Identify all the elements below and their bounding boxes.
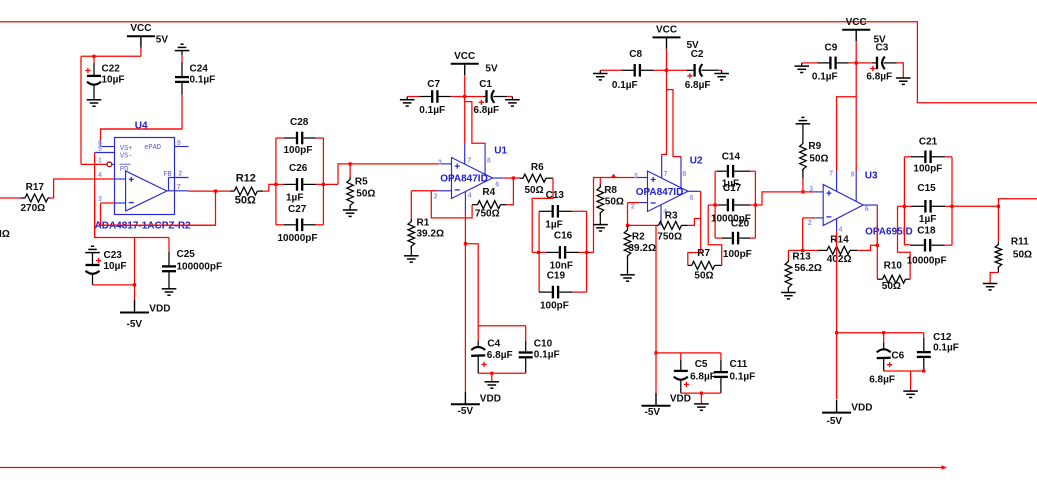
capacitor C7 0.1uF	[407, 96, 419, 98]
svg-text:50Ω: 50Ω	[356, 189, 375, 200]
svg-text:0.1µF: 0.1µF	[730, 371, 756, 382]
node block1 left-C26	[274, 183, 277, 186]
svg-text:6.8µF: 6.8µF	[866, 72, 892, 83]
svg-text:0.1µF: 0.1µF	[190, 75, 216, 86]
resistor R5 50ohm to gnd	[349, 164, 351, 177]
wire VCC stem U3	[855, 41, 857, 63]
svg-text:7: 7	[664, 171, 668, 178]
resistor R1 39.2ohm to gnd	[410, 191, 412, 219]
wire VDD row U4	[94, 237, 169, 239]
ground C6/C12 block	[903, 390, 918, 392]
svg-text:C13: C13	[546, 190, 565, 201]
ground R8	[593, 224, 608, 226]
wire R4 to output	[507, 178, 514, 205]
capacitor C18 10000pF	[924, 239, 926, 252]
U2 pin 3 +in lead	[638, 177, 648, 179]
U3 pin 4 lead	[836, 219, 838, 233]
capacitor C24 0.1uF	[181, 55, 183, 62]
capacitor C22 10uF	[93, 56, 95, 63]
svg-text:402Ω: 402Ω	[827, 254, 852, 265]
capacitor C17 10000pF	[708, 204, 717, 206]
U4 pin 8 VS+	[101, 146, 115, 148]
U3 pin 2 -in lead	[816, 217, 823, 219]
svg-text:5V: 5V	[156, 35, 169, 46]
svg-text:39.2Ω: 39.2Ω	[629, 243, 656, 254]
wire block3 left vertical	[714, 171, 716, 238]
U1 pin 2 -in lead	[438, 190, 452, 192]
wire block4 left vertical	[904, 157, 910, 245]
wire R12 to cap block	[263, 184, 276, 191]
svg-text:R10: R10	[884, 260, 903, 271]
ground C24 (top)	[180, 43, 183, 45]
svg-text:7: 7	[467, 157, 471, 164]
wire VCC stem U1	[464, 75, 466, 96]
svg-text:50Ω: 50Ω	[525, 185, 544, 196]
wire U4 pin5 VS- rail down	[94, 153, 96, 238]
wire VCC top rail	[0, 22, 1037, 103]
svg-text:C8: C8	[629, 49, 642, 60]
wire U3 output down	[876, 205, 878, 279]
wire block2 inner-left vertical	[538, 211, 540, 292]
svg-text:U2: U2	[690, 156, 703, 167]
resistor R10 50ohm series	[883, 275, 906, 283]
wire U1 output node	[504, 177, 520, 179]
U1 pin 8 lead	[484, 145, 486, 175]
svg-text:50Ω: 50Ω	[235, 195, 256, 207]
wire R6 to block2 jog	[532, 178, 553, 252]
wire cap block1 left vertical	[275, 138, 277, 225]
U2 pin 2 -in lead	[640, 202, 648, 204]
svg-text:50Ω: 50Ω	[1013, 249, 1032, 260]
svg-text:C14: C14	[722, 151, 741, 162]
wire C5/C11 bottom rail	[681, 392, 721, 394]
svg-text:C28: C28	[290, 117, 309, 128]
node VCC junction U2	[665, 69, 668, 72]
U2 pin 8 lead	[680, 157, 682, 188]
node R5 junction	[349, 162, 352, 165]
resistor R13 56.2ohm to gnd	[788, 249, 802, 251]
node VCC junction U3	[855, 61, 858, 64]
svg-text:-5V: -5V	[827, 416, 843, 427]
wire U4 output to R12	[189, 190, 231, 192]
resistor R4 750ohm feedback	[478, 201, 501, 209]
svg-text:OPA695ID: OPA695ID	[865, 227, 913, 238]
wire VCC to U2 pin 7	[662, 70, 667, 154]
wire VCC branch to U3 pin 7	[837, 97, 857, 172]
power VDD -5V U1	[451, 403, 480, 405]
capacitor C14 1uF	[715, 170, 717, 172]
svg-text:VDD: VDD	[670, 393, 691, 404]
resistor R8 50ohm to gnd	[599, 178, 601, 185]
svg-text:9: 9	[177, 140, 181, 147]
node VCC-C22 junction	[92, 55, 95, 58]
svg-text:1µF: 1µF	[545, 220, 562, 231]
svg-text:8: 8	[487, 157, 491, 164]
resistor R3 750ohm feedback	[659, 221, 682, 229]
resistor R11 50ohm to gnd	[997, 206, 999, 242]
power VCC U4 stage	[127, 35, 155, 37]
svg-text:3: 3	[438, 159, 442, 166]
wire VCC to U1 pin 7	[464, 97, 466, 144]
capacitor C28 100pF	[276, 137, 284, 139]
U2 pin 6 output lead	[688, 190, 701, 192]
U1 pin 7 lead	[464, 143, 466, 164]
capacitor C2 6.8uF	[667, 69, 687, 71]
svg-text:C4: C4	[487, 338, 500, 349]
svg-text:-5V: -5V	[645, 407, 661, 418]
capacitor C13 1uF	[552, 205, 554, 218]
svg-text:R1: R1	[417, 218, 430, 229]
svg-text:50Ω: 50Ω	[809, 154, 828, 165]
U4 pin 4 +in	[115, 178, 126, 180]
ground R11	[983, 283, 998, 285]
wire C6/C12 bottom rail	[884, 370, 924, 372]
capacitor C25 100000pF	[168, 238, 170, 253]
U4 pin 2 FB	[169, 177, 189, 179]
svg-text:C5: C5	[695, 359, 708, 370]
svg-text:C10: C10	[534, 338, 553, 349]
svg-text:3: 3	[98, 196, 102, 203]
svg-text:750Ω: 750Ω	[475, 209, 500, 220]
capacitor C5 6.8uF	[674, 370, 688, 372]
resistor R17 270ohm input	[0, 197, 21, 199]
svg-text:U1: U1	[494, 145, 507, 156]
U4 pin 3 -in	[115, 202, 126, 204]
wire R14 to output	[857, 245, 877, 250]
node -in junction U3	[801, 249, 804, 252]
U2 pin 7 lead	[661, 154, 663, 178]
svg-text:7: 7	[829, 170, 833, 177]
wire output exit to right edge	[952, 205, 998, 207]
svg-text:100pF: 100pF	[723, 249, 752, 260]
resistor R14 402ohm feedback	[803, 249, 819, 251]
svg-text:C2: C2	[691, 49, 704, 60]
svg-text:3: 3	[809, 186, 813, 193]
U2 pin 4 lead	[660, 205, 662, 226]
svg-text:VCC: VCC	[130, 23, 151, 34]
wire C4/C10 bottom rail	[478, 372, 526, 374]
node C16 row junctions	[537, 251, 540, 254]
ground R9 (top)	[801, 116, 804, 118]
svg-text:FB: FB	[163, 171, 171, 179]
wire block2 inner-right vertical	[586, 211, 588, 292]
svg-text:C1: C1	[479, 79, 492, 90]
svg-text:10000pF: 10000pF	[278, 233, 318, 244]
svg-text:6: 6	[865, 206, 869, 213]
capacitor C26 1uF	[276, 183, 284, 185]
node R9 junction	[801, 190, 804, 193]
wire VCC stem to rail U4	[140, 48, 142, 57]
node VCC junction U1	[463, 95, 466, 98]
svg-text:C23: C23	[104, 250, 123, 261]
ground C4/C10 block	[485, 381, 500, 383]
svg-text:2: 2	[178, 171, 182, 178]
svg-text:750Ω: 750Ω	[657, 232, 682, 243]
svg-text:-5V: -5V	[127, 319, 143, 330]
capacitor C8 0.1uF	[600, 69, 621, 71]
capacitor C15 1uF	[898, 205, 912, 207]
ground C22	[87, 99, 102, 101]
svg-text:U3: U3	[865, 171, 878, 182]
svg-text:3: 3	[634, 173, 638, 180]
svg-text:C18: C18	[917, 225, 936, 236]
svg-text:C15: C15	[917, 183, 936, 194]
power VCC U3 stage	[842, 29, 870, 31]
wire VCC stem U2	[666, 49, 668, 71]
svg-text:C26: C26	[289, 163, 308, 174]
ground C23 (top)	[91, 245, 94, 247]
power VCC U1 stage	[451, 63, 479, 65]
node V- branch U3	[835, 331, 838, 334]
node R2 junction	[626, 224, 629, 227]
svg-text:C7: C7	[427, 79, 440, 90]
node output-R14 junction	[876, 244, 879, 247]
svg-text:R3: R3	[665, 211, 678, 222]
wire R10 to block4 left	[898, 206, 911, 279]
svg-text:R9: R9	[808, 141, 821, 152]
U1 pin 6 output lead	[493, 177, 504, 179]
wire block2 exit to U2 +in	[594, 178, 638, 253]
wire C24 to U4 pin 8 (VS+)	[181, 83, 183, 95]
svg-text:0.1µF: 0.1µF	[812, 72, 838, 83]
node block3 left-C17	[714, 203, 717, 206]
U4 pin 7 output	[167, 190, 189, 192]
wire block3 exit to U3 +in	[755, 192, 813, 205]
svg-text:4: 4	[839, 227, 843, 234]
wire branch to C6/C12 block	[837, 332, 924, 334]
svg-text:R2: R2	[632, 231, 645, 242]
svg-text:39.2Ω: 39.2Ω	[417, 229, 444, 240]
ground R2	[620, 274, 635, 276]
svg-text:R13: R13	[792, 251, 811, 262]
ground R13	[781, 292, 796, 294]
svg-text:C17: C17	[723, 183, 742, 194]
ground C5/C11 block	[694, 403, 709, 405]
wire R11 to ground	[990, 273, 998, 284]
wire U4 feedback (over label)	[100, 224, 215, 226]
svg-text:C16: C16	[554, 231, 573, 242]
op-amp U3 OPA695ID	[823, 185, 863, 226]
svg-text:ePAD: ePAD	[144, 144, 161, 152]
svg-text:7: 7	[177, 184, 181, 191]
wire branch to C4/C10 block	[465, 244, 525, 326]
svg-text:270Ω: 270Ω	[21, 203, 46, 214]
U3 pin 8 lead	[855, 171, 857, 202]
svg-text:4: 4	[468, 192, 472, 199]
svg-text:PD: PD	[120, 166, 128, 174]
U4 pin 1 PD with bubble	[107, 162, 112, 167]
wire U4 VS- rail (over label)	[94, 200, 96, 238]
svg-text:8: 8	[851, 171, 855, 178]
wire C23 to VDD rail	[93, 284, 135, 286]
ground C3 (right)	[896, 77, 911, 79]
svg-text:C25: C25	[177, 249, 196, 260]
resistor R12 50ohm	[234, 187, 257, 195]
U3 pin 6 output lead	[863, 204, 877, 206]
ground C25	[162, 288, 177, 290]
op-amp U2 OPA847ID	[648, 171, 689, 212]
node block3 right-C17	[754, 203, 757, 206]
svg-text:10µF: 10µF	[102, 75, 125, 86]
capacitor C11 0.1uF	[714, 371, 728, 373]
svg-text:VDD: VDD	[480, 393, 501, 404]
svg-text:1µF: 1µF	[286, 192, 303, 203]
wire VCC branch to U2 pin 8	[667, 90, 682, 157]
svg-text:0.1µF: 0.1µF	[419, 105, 445, 116]
wire branch to C5/C11 block	[656, 352, 721, 354]
svg-text:R8: R8	[604, 185, 617, 196]
svg-text:6: 6	[495, 182, 499, 189]
node C6 top junction	[882, 331, 885, 334]
svg-text:6.8µF: 6.8µF	[869, 375, 895, 386]
wire VCC branch to U1 pin 8	[465, 102, 485, 145]
wire U1 pin4 V- rail down	[464, 212, 466, 393]
svg-text:VDD: VDD	[149, 304, 170, 315]
ground R1	[404, 255, 419, 257]
ground C1 (right)	[505, 99, 520, 101]
op-amp U1 OPA847ID	[452, 158, 493, 199]
wire U1 -in to R1/R4	[411, 190, 437, 192]
wire R17 to U4 pin 4 (+in)	[50, 179, 115, 198]
svg-text:100000pF: 100000pF	[177, 262, 223, 273]
U1 pin 3 +in lead	[442, 163, 452, 165]
node U1 out junction	[512, 176, 515, 179]
ground C9 (left)	[794, 65, 809, 67]
capacitor C16 10nF	[532, 251, 546, 253]
svg-text:0.1µF: 0.1µF	[933, 342, 959, 353]
ground C7 (left)	[400, 99, 415, 101]
svg-text:R5: R5	[355, 176, 368, 187]
ground C2 (right)	[714, 73, 729, 75]
svg-text:-5V: -5V	[458, 406, 474, 417]
wire U2 pin4 V- rail down	[655, 225, 657, 394]
svg-text:10µF: 10µF	[104, 261, 127, 272]
svg-text:C21: C21	[919, 136, 938, 147]
resistor R2 39.2ohm to gnd	[624, 228, 631, 259]
svg-text:10000pF: 10000pF	[907, 255, 947, 266]
svg-text:R4: R4	[482, 187, 495, 198]
svg-text:VS-: VS-	[120, 152, 133, 160]
node R8 junction	[611, 174, 617, 178]
svg-text:C6: C6	[891, 351, 904, 362]
capacitor C3 6.8uF	[856, 62, 872, 64]
wire U3 output vertical (over label)	[876, 225, 878, 246]
wire -in row to R3	[628, 224, 657, 226]
svg-text:C9: C9	[825, 42, 838, 53]
node block4 left-C15	[903, 205, 906, 208]
wire block3 right vertical	[754, 171, 756, 238]
capacitor C27 10000pF	[276, 224, 284, 226]
capacitor C12 0.1uF	[917, 351, 931, 353]
svg-text:R7: R7	[697, 248, 710, 259]
svg-text:6.8µF: 6.8µF	[473, 105, 499, 116]
U3 pin 7 lead	[836, 172, 838, 192]
capacitor C10 0.1uF	[519, 351, 533, 353]
svg-text:C27: C27	[288, 204, 307, 215]
svg-text:4: 4	[98, 172, 102, 179]
ground C8 (left)	[593, 73, 608, 75]
capacitor C23 10uF	[86, 264, 100, 266]
svg-text:VCC: VCC	[454, 51, 475, 62]
capacitor C1 6.8uF	[465, 96, 484, 98]
svg-text:50Ω: 50Ω	[694, 271, 713, 282]
svg-text:6.8µF: 6.8µF	[690, 371, 716, 382]
svg-text:5V: 5V	[485, 64, 498, 75]
node R11 junction	[997, 205, 1000, 208]
svg-text:6: 6	[690, 195, 694, 202]
node V- branch U2	[654, 351, 657, 354]
svg-text:C19: C19	[547, 270, 566, 281]
svg-text:50Ω: 50Ω	[882, 281, 901, 292]
svg-text:2: 2	[434, 194, 438, 201]
U1 pin 4 lead	[464, 192, 466, 212]
svg-text:6.8µF: 6.8µF	[487, 350, 513, 361]
svg-text:0.1µF: 0.1µF	[612, 80, 638, 91]
svg-text:8: 8	[682, 171, 686, 178]
resistor R9 50ohm to gnd	[800, 141, 807, 172]
U3 pin 3 +in lead	[813, 191, 823, 193]
svg-text:VCC: VCC	[656, 24, 677, 35]
svg-text:OPA847ID: OPA847ID	[636, 187, 684, 198]
capacitor C6 6.8uF	[877, 349, 891, 352]
wire U4 VS+ top jog (over label)	[101, 128, 183, 130]
svg-text:VCC: VCC	[846, 17, 867, 28]
node V- branch U1	[464, 242, 467, 245]
svg-text:100pF: 100pF	[284, 145, 313, 156]
wire U3 -in to R13/R14	[803, 217, 816, 219]
wire block4 right vertical	[951, 157, 953, 245]
svg-text:1µF: 1µF	[919, 214, 936, 225]
svg-text:R6: R6	[531, 162, 544, 173]
svg-text:2: 2	[631, 203, 635, 210]
svg-text:2: 2	[808, 220, 812, 227]
svg-text:C3: C3	[876, 42, 889, 53]
svg-text:R11: R11	[1011, 236, 1029, 247]
capacitor C20 100pF	[715, 237, 722, 239]
capacitor C19 100pF	[552, 286, 554, 299]
U4 pin 5 VS-	[95, 152, 115, 154]
svg-text:C20: C20	[731, 218, 750, 229]
power VCC U2 stage	[653, 36, 681, 38]
wire R7 to block3 left	[708, 205, 722, 265]
svg-text:R12: R12	[236, 172, 256, 184]
node output-feedback junction	[214, 190, 217, 193]
resistor R6 50ohm series	[523, 174, 546, 182]
svg-text:1: 1	[98, 158, 102, 165]
svg-text:C11: C11	[730, 359, 748, 370]
power VDD -5V U3	[822, 412, 851, 414]
op-amp U4 ADA4817-1ACPZ-R2 body	[115, 138, 175, 215]
svg-text:5: 5	[98, 146, 102, 153]
wire VCC to U3 pin 8	[855, 63, 857, 171]
svg-text:R17: R17	[26, 182, 45, 193]
svg-text:100pF: 100pF	[913, 164, 942, 175]
wire block1 to U1 +input	[338, 164, 442, 185]
wire VCC row to PD pin	[81, 55, 141, 57]
svg-text:6.8µF: 6.8µF	[685, 80, 711, 91]
svg-text:U4: U4	[135, 121, 148, 132]
wire bottom net rail with arrow	[0, 467, 945, 469]
node block4 right-C15	[950, 205, 953, 208]
svg-text:100pF: 100pF	[540, 300, 569, 311]
node block1 right-C26	[322, 183, 325, 186]
wire U2 -in loop to R2/R3	[628, 202, 641, 204]
capacitor C21 100pF	[904, 156, 911, 158]
wire U4 pin3 feedback loop	[101, 202, 115, 204]
svg-text:56.2Ω: 56.2Ω	[794, 263, 821, 274]
power VDD -5V U4	[120, 312, 149, 314]
wire R9 to +in node	[802, 179, 804, 192]
